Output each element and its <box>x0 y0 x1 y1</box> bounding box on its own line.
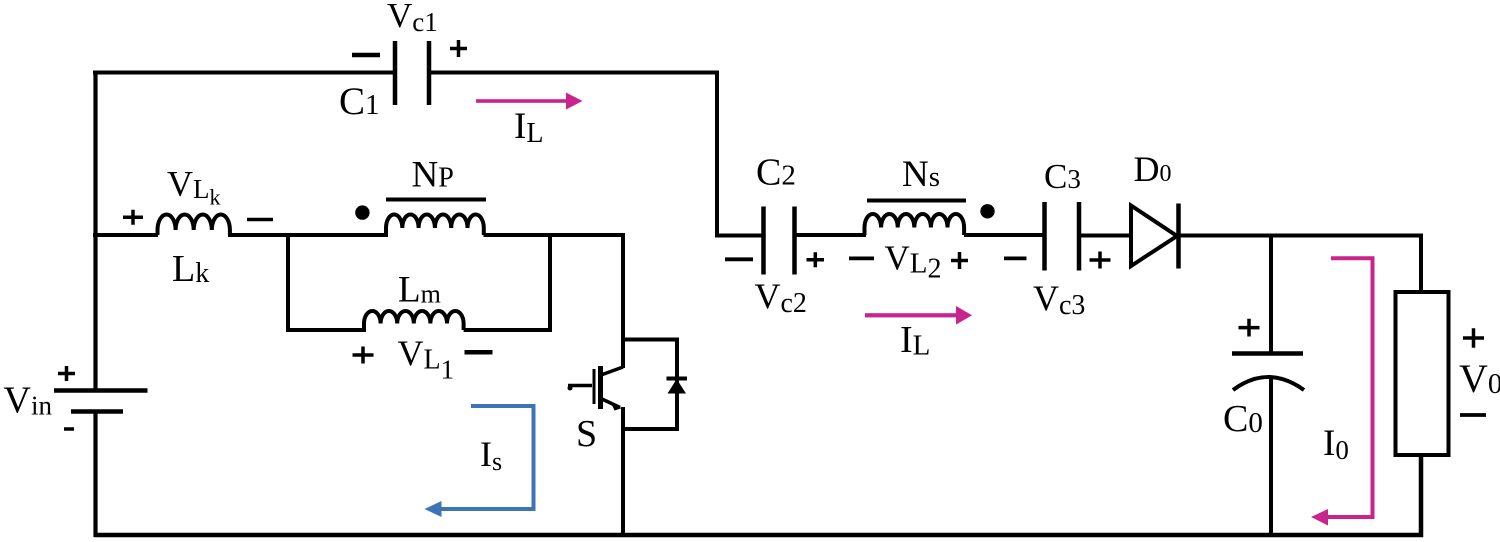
polarity plus of C2 <box>807 252 825 267</box>
polarity minus of VL1 <box>465 350 493 355</box>
capacitor C1 right plate <box>427 41 432 105</box>
capacitor C1 left plate <box>393 41 398 105</box>
wire: C3 to diode D0 <box>1079 234 1133 238</box>
dot mark of Np <box>355 205 369 219</box>
wire: Ns to C3 <box>964 233 1045 237</box>
current arrow IL (top) <box>476 93 583 110</box>
polarity plus of Vin <box>58 366 75 381</box>
polarity plus of C3 <box>1090 252 1111 269</box>
wire: C2 row corner to C2 left plate <box>715 234 764 238</box>
body diode of switch S <box>667 379 688 394</box>
battery Vin long plate <box>54 388 148 393</box>
battery Vin short plate <box>71 409 123 414</box>
polarity minus of Lk <box>247 218 273 222</box>
wire: left vertical bus upper (node A to battery +) <box>93 71 97 391</box>
wire: output right vertical lower <box>1419 454 1424 537</box>
wire: top bus right segment (C1 right plate to corner) <box>429 71 719 75</box>
wire: diode branch vertical <box>675 338 679 432</box>
polarity minus of VL2 <box>849 256 874 260</box>
capacitor C2 right plate <box>792 207 797 275</box>
polarity minus of V0 <box>1460 413 1486 417</box>
wire: C0 branch vertical lower <box>1269 377 1273 536</box>
wire: IGBT-diode loop top <box>621 338 679 342</box>
wire: IGBT-diode loop bottom <box>621 427 679 431</box>
current loop Is (blue) <box>441 406 534 509</box>
capacitor C3 right plate <box>1077 202 1082 271</box>
polarity plus of VL1 <box>353 347 374 364</box>
transistor Q: IGBT switch S <box>568 366 624 411</box>
arrowhead of I0 <box>1311 509 1328 526</box>
current loop I0 (pink) <box>1328 258 1373 517</box>
polarity minus of C3 <box>1004 256 1027 260</box>
inductor Lm (magnetizing) <box>364 311 464 330</box>
polarity plus of VL2 <box>951 252 968 269</box>
polarity plus of C0 <box>1239 319 1260 337</box>
core bar over Np <box>386 198 486 202</box>
capacitor C2 left plate <box>761 207 766 275</box>
load resistor R (V0) <box>1396 292 1449 455</box>
svg-text:Ns: Ns <box>902 154 940 195</box>
core bar over Ns <box>867 199 966 203</box>
current arrow IL (middle) <box>865 306 972 325</box>
diode D0 <box>1131 204 1179 269</box>
wire: D0 cathode to output corner <box>1178 234 1424 238</box>
capacitor C0 curved plate <box>1233 377 1304 390</box>
wire: Lm loop left vertical <box>286 233 290 332</box>
wire: switch vertical upper (mid row to IGBT collector) <box>621 233 625 368</box>
arrowhead of Is <box>425 501 442 517</box>
wire: mid row Lk to Np coil <box>228 233 388 237</box>
wire: right drop from top bus to C2 row <box>715 71 719 238</box>
wire: switch vertical lower (emitter to bottom rail) <box>621 407 625 537</box>
wire: output right vertical upper <box>1419 234 1423 294</box>
wire: mid row Np coil to switch drop <box>484 233 626 237</box>
polarity plus of C1 <box>450 40 467 57</box>
wire: Lm loop bottom left segment <box>286 328 366 332</box>
inductor Lk <box>158 215 230 236</box>
winding Ns (transformer secondary) <box>865 214 965 235</box>
wire: top bus left segment (to C1 left plate) <box>93 71 395 75</box>
wire: C0 branch vertical upper <box>1269 234 1273 354</box>
wire: Lm loop right vertical <box>548 233 552 332</box>
dot mark of Ns <box>980 204 994 218</box>
wire: mid row from left bus to Lk <box>93 233 158 237</box>
svg-text:S: S <box>576 413 597 455</box>
polarity plus of Lk <box>123 210 143 225</box>
polarity plus of V0 <box>1463 328 1484 347</box>
wire: C2 to Ns winding <box>795 233 867 237</box>
polarity minus of Vin <box>64 427 74 431</box>
capacitor C0 straight plate <box>1232 351 1303 356</box>
winding Np (transformer primary) <box>386 215 484 236</box>
wire: Lm loop bottom right segment <box>464 328 552 332</box>
capacitor C3 left plate <box>1042 202 1047 271</box>
polarity minus of C1 <box>352 53 380 58</box>
wire: bottom rail <box>94 533 1423 538</box>
polarity minus of C2 <box>725 257 753 261</box>
wire: left vertical bus lower (battery - to bottom rail) <box>93 412 97 537</box>
